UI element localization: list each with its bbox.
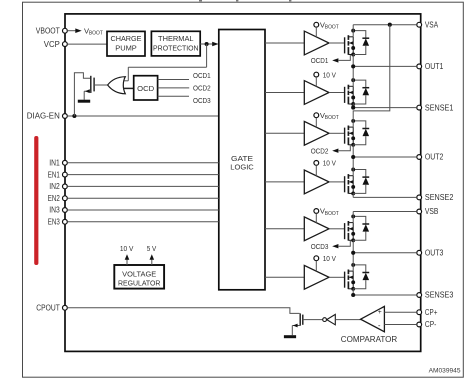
M3 vertical tie — [352, 127, 354, 145]
supply stem driver 6 — [315, 261, 317, 272]
wire OR gate output to Q1 gate — [94, 84, 108, 86]
OR gate (fault combine, faces left) — [108, 77, 126, 94]
wire inverter to Q2 gate — [303, 319, 323, 321]
pin circle OUT3 — [417, 250, 422, 255]
wire M2 source to SENSE1 — [352, 104, 354, 108]
wire gate logic to driver 2 — [265, 92, 304, 94]
svg-text:VCP: VCP — [44, 40, 60, 49]
svg-text:CPOUT: CPOUT — [36, 304, 60, 313]
pin circle OUT2 — [417, 155, 422, 160]
svg-text:OCD3: OCD3 — [193, 96, 211, 105]
pin circle CPOUT — [63, 305, 68, 310]
junction D4 anode tap — [351, 168, 355, 172]
wire driver 6 to gate M6 — [329, 276, 345, 278]
pin circle IN3 — [63, 208, 68, 213]
pin circle CP+ — [417, 310, 422, 315]
pin circle EN3 — [63, 219, 68, 224]
driver amp 6 — [304, 265, 329, 289]
Q1 body arrow — [85, 89, 90, 93]
svg-text:CHARGE: CHARGE — [111, 34, 142, 43]
charge pump block — [107, 31, 145, 56]
pin circle EN1 — [63, 172, 68, 177]
wire EN2 to gate logic — [67, 197, 219, 199]
wire IN1 to gate logic — [67, 162, 219, 164]
power MOSFET M4 — [344, 176, 346, 192]
rail VSA — [353, 24, 417, 26]
junction M3 body/source — [351, 136, 355, 140]
supply bubble driver 6 — [314, 256, 319, 261]
driver amp 1 — [304, 31, 329, 55]
junction SENSE1 — [351, 106, 355, 110]
freewheel diode D6 — [353, 265, 366, 273]
M1 drain stub — [348, 36, 353, 38]
wire IN2 to gate logic — [67, 185, 219, 187]
junction M1 body/source — [351, 46, 355, 50]
junction D2 anode tap — [351, 78, 355, 82]
power MOSFET M1 — [344, 37, 346, 53]
wire VBOOT to arrow — [67, 30, 75, 32]
svg-text:IN2: IN2 — [49, 182, 60, 191]
rail SENSE2 — [353, 196, 417, 198]
wire Q1 source down — [83, 91, 85, 100]
svg-text:OUT3: OUT3 — [425, 249, 444, 258]
wire CPOUT to Q2 drain — [67, 308, 299, 314]
wire DIAG-EN to gate logic — [67, 115, 219, 117]
svg-text:EN1: EN1 — [48, 170, 60, 179]
supply stem driver 2 — [315, 77, 317, 87]
wire M1 source / M2 drain — [352, 55, 354, 87]
junction D5 anode tap — [351, 214, 355, 218]
comparator U3 — [361, 306, 385, 331]
rail SENSE1 — [353, 107, 417, 109]
OCD sense tap OCD1 — [339, 55, 351, 60]
freewheel diode D4 — [353, 170, 366, 178]
pin circle VCP — [63, 42, 68, 47]
wire gate logic to driver 6 — [265, 276, 304, 278]
svg-text:VSA: VSA — [425, 20, 439, 29]
power MOSFET M5 — [344, 223, 346, 239]
rail OUT2 — [353, 156, 417, 158]
freewheel diode D1 — [353, 31, 366, 39]
arrowhead 10V — [125, 254, 130, 260]
arrowhead 5V — [150, 254, 155, 260]
svg-text:VOLTAGE: VOLTAGE — [122, 269, 156, 278]
pin circle SENSE1 — [417, 105, 422, 110]
rail OUT3 — [353, 252, 417, 254]
wire OCD box to OR gate input — [123, 87, 134, 89]
svg-text:OUT1: OUT1 — [425, 62, 444, 71]
junction OUT2 — [351, 155, 355, 159]
cropped caption descenders at very top — [199, 0, 202, 1]
svg-text:OCD3: OCD3 — [311, 242, 329, 251]
svg-text:CP-: CP- — [425, 320, 437, 329]
wire M1 drain to VSA — [352, 25, 354, 37]
M6 body arrow — [349, 276, 353, 280]
svg-text:OUT2: OUT2 — [425, 153, 444, 162]
M2 body stub — [349, 92, 353, 94]
wire driver 3 to gate M3 — [329, 132, 345, 134]
supply bubble driver 2 — [314, 72, 319, 77]
power MOSFET M3 — [344, 128, 346, 144]
freewheel diode D3 — [353, 121, 366, 129]
transistor Q2 (CPOUT switch) — [299, 313, 301, 325]
svg-text:BOOT: BOOT — [325, 25, 340, 31]
junction D6 anode tap — [351, 263, 355, 267]
inverter U2 — [323, 318, 327, 322]
junction D3 anode tap — [351, 119, 355, 123]
wire driver 4 to gate M4 — [329, 181, 345, 183]
OCD sense tap OCD3 — [339, 241, 351, 246]
svg-text:10 V: 10 V — [323, 254, 336, 263]
junction M6 body/source — [351, 280, 355, 284]
wire driver 5 to gate M5 — [329, 228, 345, 230]
wire driver 1 to gate M1 — [329, 42, 345, 44]
thermal protection block — [151, 31, 200, 56]
arrowhead OCD2 — [332, 149, 338, 153]
junction M1 source row — [351, 53, 355, 57]
M4 source stub — [348, 192, 353, 194]
pin circle SENSE2 — [417, 195, 422, 200]
OCD block — [134, 76, 158, 100]
svg-text:AM039945: AM039945 — [429, 368, 461, 375]
svg-text:SENSE3: SENSE3 — [425, 291, 454, 300]
junction DIAG-EN — [72, 114, 76, 118]
junction M3 source row — [351, 143, 355, 147]
M5 drain stub — [348, 222, 353, 224]
M6 vertical tie — [352, 271, 354, 289]
wire VSA feed to M3 drain — [353, 25, 390, 127]
ground (Q1) — [78, 100, 90, 103]
gate logic block — [219, 30, 265, 290]
svg-text:COMPARATOR: COMPARATOR — [341, 335, 398, 344]
pin circle IN2 — [63, 184, 68, 189]
svg-text:PROTECTION: PROTECTION — [153, 43, 199, 52]
supply bubble driver 3 — [314, 113, 319, 118]
supply bubble driver 5 — [314, 209, 319, 214]
junction M2 body/source — [351, 96, 355, 100]
svg-text:OCD1: OCD1 — [193, 71, 211, 80]
wire gate logic to driver 5 — [265, 228, 304, 230]
arrowhead VBOOT — [75, 28, 81, 33]
wire down to OR gate input — [127, 67, 129, 81]
M3 body arrow — [349, 132, 353, 136]
wire CP- to comparator — [384, 324, 416, 326]
wire driver 2 to gate M2 — [329, 92, 345, 94]
M2 source stub — [348, 103, 353, 105]
svg-text:CP+: CP+ — [425, 308, 438, 317]
pin circle VSB — [417, 209, 422, 214]
freewheel diode D2 — [353, 80, 366, 88]
svg-text:PUMP: PUMP — [115, 43, 137, 52]
junction OUT1 — [351, 64, 355, 68]
pin circle IN1 — [63, 160, 68, 165]
junction M5 body/source — [351, 232, 355, 236]
svg-text:OCD1: OCD1 — [311, 56, 329, 65]
ground (Q2) — [284, 335, 296, 338]
wire M5 source / M6 drain — [352, 240, 354, 271]
supply stem driver 3 — [315, 118, 317, 128]
svg-text:SENSE2: SENSE2 — [425, 193, 454, 202]
driver amp 4 — [304, 170, 329, 194]
M1 body stub — [349, 42, 353, 44]
rail SENSE3 — [353, 294, 417, 296]
svg-text:VBOOT: VBOOT — [36, 26, 60, 35]
M5 body stub — [349, 228, 353, 230]
arrowhead into gate logic — [212, 42, 218, 47]
junction M4 source row — [351, 191, 355, 195]
svg-text:SENSE1: SENSE1 — [425, 103, 454, 112]
M2 drain stub — [348, 85, 353, 87]
power MOSFET M2 — [344, 87, 346, 103]
junction VSA feed — [388, 23, 392, 27]
junction D1 anode tap — [351, 29, 355, 33]
M5 vertical tie — [352, 223, 354, 241]
svg-text:DIAG-EN: DIAG-EN — [27, 112, 60, 121]
junction OUT3 — [351, 251, 355, 255]
wire CP+ to comparator — [384, 311, 416, 313]
wire Q1 source — [84, 90, 91, 92]
junction M6 source row — [351, 287, 355, 291]
wire junction down — [206, 44, 208, 67]
M4 body stub — [349, 181, 353, 183]
M1 source stub — [348, 54, 353, 56]
M1 body arrow — [349, 41, 353, 45]
wire OCD1 — [158, 79, 189, 81]
M4 vertical tie — [352, 176, 354, 194]
wire OR gate top input — [123, 80, 128, 82]
wire M6 source to SENSE3 — [352, 289, 354, 295]
svg-text:THERMAL: THERMAL — [158, 34, 194, 43]
M2 body arrow — [349, 91, 353, 95]
M6 body stub — [349, 276, 353, 278]
wire 10V output — [126, 260, 128, 266]
wire VCP to charge pump — [67, 43, 107, 45]
rail OUT1 — [353, 65, 417, 67]
junction M5 source row — [351, 238, 355, 242]
arrowhead OCD3 — [332, 244, 338, 248]
svg-text:OCD: OCD — [137, 84, 154, 93]
M6 source stub — [348, 288, 353, 290]
M5 body arrow — [349, 227, 353, 231]
wire comparator to inverter — [335, 319, 361, 321]
pin circle DIAG-EN — [63, 114, 68, 119]
wire DIAG-EN riser to Q1 drain — [74, 73, 90, 116]
svg-text:REGULATOR: REGULATOR — [118, 279, 161, 288]
svg-text:VSB: VSB — [425, 207, 439, 216]
svg-text:10 V: 10 V — [323, 159, 336, 168]
svg-text:5 V: 5 V — [147, 244, 157, 253]
svg-text:OCD2: OCD2 — [193, 84, 211, 93]
wire across to OR gate — [128, 66, 206, 68]
junction M2 source row — [351, 102, 355, 106]
wire M3 source / M4 drain — [352, 145, 354, 176]
M4 body arrow — [349, 180, 353, 184]
M4 drain stub — [348, 175, 353, 177]
red highlight bar — [34, 136, 38, 265]
wire EN1 to gate logic — [67, 174, 219, 176]
wire Q2 source — [292, 325, 300, 327]
driver amp 2 — [304, 81, 329, 105]
M3 source stub — [348, 144, 353, 146]
pin circle VBOOT — [63, 28, 68, 33]
svg-text:EN2: EN2 — [48, 194, 60, 203]
svg-text:10 V: 10 V — [120, 244, 134, 253]
voltage regulator block — [114, 265, 164, 289]
driver amp 3 — [304, 121, 329, 145]
rail VSB — [353, 211, 417, 213]
supply bubble driver 1 — [314, 22, 319, 27]
wire OCD2 — [158, 87, 190, 89]
transistor Q1 (DIAG-EN pulldown) — [90, 76, 92, 93]
M3 body stub — [349, 132, 353, 134]
pin circle OUT1 — [417, 64, 422, 69]
svg-text:BOOT: BOOT — [89, 31, 104, 37]
svg-text:EN3: EN3 — [48, 218, 60, 227]
junction thermal/gate-logic — [205, 42, 209, 46]
wire Q2 source down — [291, 326, 293, 336]
pin circle SENSE3 — [417, 293, 422, 298]
OCD sense tap OCD2 — [339, 145, 351, 150]
Q2 body arrow — [293, 324, 298, 328]
wire gate logic to driver 4 — [265, 181, 304, 183]
M5 source stub — [348, 239, 353, 241]
wire M4 source to SENSE2 — [352, 193, 354, 197]
wire IN3 to gate logic — [67, 209, 219, 211]
pin circle VSA — [417, 22, 422, 27]
svg-text:IN1: IN1 — [49, 159, 60, 168]
wire 5V output — [151, 260, 153, 266]
supply stem driver 5 — [315, 213, 317, 222]
M1 vertical tie — [352, 37, 354, 55]
supply stem driver 4 — [315, 165, 317, 176]
wire gate logic to driver 1 — [265, 42, 304, 44]
junction M4 body/source — [351, 185, 355, 189]
supply bubble driver 4 — [314, 161, 319, 166]
M3 drain stub — [348, 126, 353, 128]
svg-text:10 V: 10 V — [323, 70, 336, 79]
svg-text:+: + — [378, 309, 382, 316]
wire VSB to M5 drain — [352, 212, 354, 223]
pin circle EN2 — [63, 196, 68, 201]
pin circle CP- — [417, 322, 422, 327]
freewheel diode D5 — [353, 216, 366, 224]
svg-text:OCD2: OCD2 — [311, 146, 329, 155]
supply stem driver 1 — [315, 27, 317, 37]
power MOSFET M6 — [344, 272, 346, 288]
svg-text:BOOT: BOOT — [325, 115, 340, 121]
wire EN3 to gate logic — [67, 221, 219, 223]
svg-text:BOOT: BOOT — [325, 211, 340, 217]
device boundary box — [65, 14, 421, 352]
wire thermal protection to gate logic — [200, 43, 213, 45]
M6 drain stub — [348, 270, 353, 272]
driver amp 5 — [304, 217, 329, 241]
svg-text:LOGIC: LOGIC — [230, 162, 254, 171]
M2 vertical tie — [352, 86, 354, 104]
arrowhead OCD1 — [332, 58, 338, 62]
junction SENSE3 — [351, 293, 355, 297]
svg-text:IN3: IN3 — [49, 206, 60, 215]
wire OCD3 — [158, 95, 189, 97]
wire gate logic to driver 3 — [265, 132, 304, 134]
